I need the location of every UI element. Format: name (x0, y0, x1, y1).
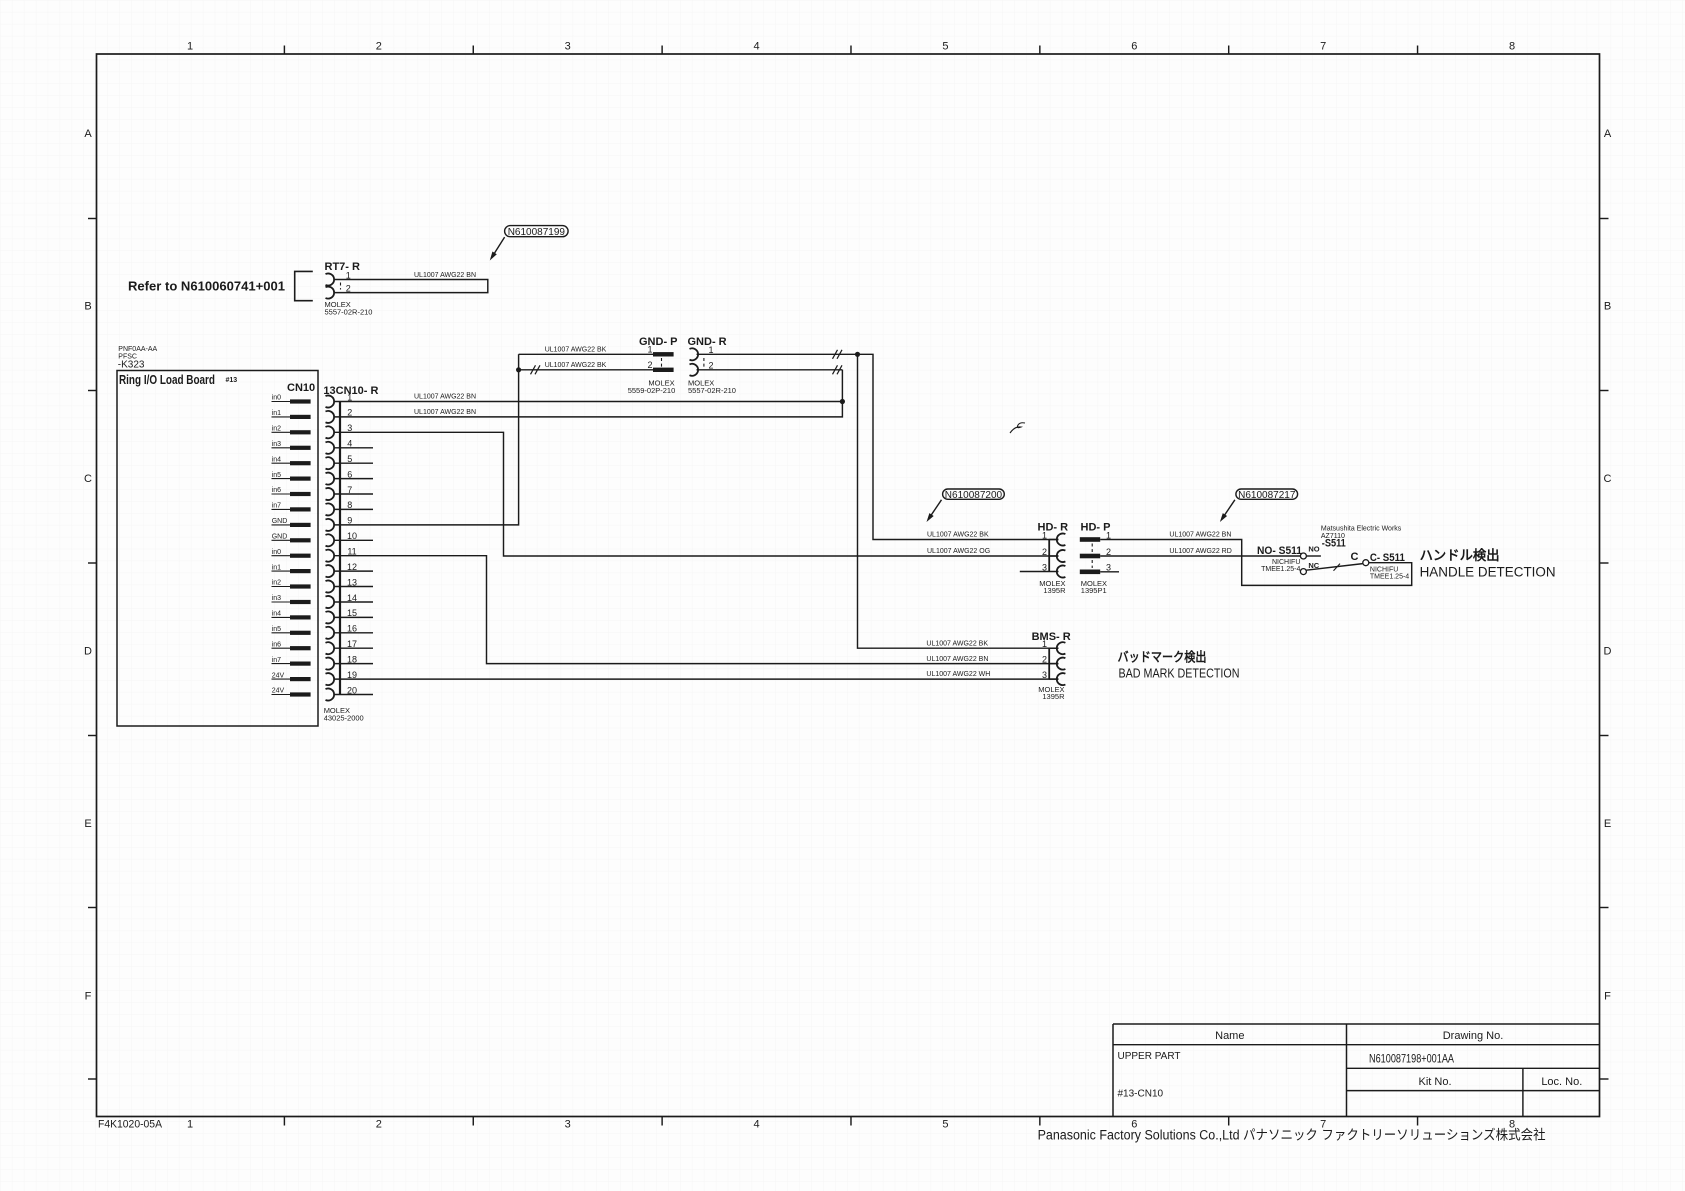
svg-text:-K323: -K323 (118, 360, 145, 371)
svg-text:43025-2000: 43025-2000 (324, 714, 364, 723)
svg-text:Loc. No.: Loc. No. (1541, 1076, 1582, 1088)
svg-text:5557-02R-210: 5557-02R-210 (688, 386, 736, 395)
svg-text:B: B (84, 301, 91, 313)
HD-R pin3 stub (1020, 571, 1059, 573)
svg-text:UL1007 AWG22 BN: UL1007 AWG22 BN (414, 393, 476, 400)
svg-text:1: 1 (187, 41, 193, 53)
svg-text:UPPER PART: UPPER PART (1118, 1051, 1181, 1062)
svg-text:B: B (1604, 301, 1611, 313)
svg-text:in1: in1 (272, 410, 281, 417)
svg-text:NO: NO (1308, 545, 1319, 554)
svg-text:5559-02P-210: 5559-02P-210 (628, 386, 676, 395)
switch S511 terminal NC (1300, 569, 1306, 575)
svg-text:C: C (1351, 551, 1359, 563)
svg-text:GND: GND (272, 534, 288, 541)
svg-text:ハンドル検出: ハンドル検出 (1420, 547, 1500, 563)
CN10 pin 14 (in3) (272, 601, 291, 603)
svg-text:N610087217: N610087217 (1238, 490, 1296, 501)
svg-text:in2: in2 (272, 426, 281, 433)
CN10 pin 2 (in1) (272, 416, 291, 418)
CN10 pin 6 (in5) (272, 478, 291, 480)
callout N610087200 (943, 489, 1005, 499)
svg-text:C: C (1604, 473, 1612, 485)
svg-text:RT7- R: RT7- R (325, 261, 361, 273)
junction dot C (855, 352, 860, 357)
svg-text:24V: 24V (272, 672, 285, 679)
svg-text:3: 3 (565, 41, 571, 53)
CN10 pin 1 (in0) (272, 401, 291, 403)
bracket symbol (295, 271, 313, 300)
svg-text:in6: in6 (272, 487, 281, 494)
svg-text:Refer to N610060741+001: Refer to N610060741+001 (128, 279, 285, 294)
svg-text:UL1007 AWG22 BN: UL1007 AWG22 BN (414, 409, 476, 416)
svg-text:Ring I/O Load Board: Ring I/O Load Board (119, 373, 215, 387)
svg-text:in0: in0 (272, 549, 281, 556)
svg-text:E: E (1604, 818, 1611, 830)
svg-text:UL1007 AWG22 BK: UL1007 AWG22 BK (545, 362, 607, 369)
wire break mark (531, 365, 536, 374)
svg-text:UL1007 AWG22 BK: UL1007 AWG22 BK (927, 532, 989, 539)
svg-text:BMS- R: BMS- R (1032, 631, 1071, 643)
svg-text:#13-CN10: #13-CN10 (1118, 1089, 1164, 1100)
svg-text:in0: in0 (272, 395, 281, 402)
svg-text:D: D (1604, 646, 1612, 658)
svg-text:A: A (84, 128, 92, 140)
wire CN10-19 to BMS-R pin3 UL1007 AWG22 WH (334, 678, 1059, 680)
svg-text:in7: in7 (272, 503, 281, 510)
svg-text:N610087198+001AA: N610087198+001AA (1369, 1052, 1454, 1066)
svg-text:UL1007 AWG22 WH: UL1007 AWG22 WH (926, 671, 990, 678)
svg-text:BAD MARK DETECTION: BAD MARK DETECTION (1119, 666, 1240, 681)
wire CN10-11 to BMS-R pin2 (334, 556, 1059, 664)
svg-text:GND- P: GND- P (639, 336, 678, 348)
svg-text:24V: 24V (272, 688, 285, 695)
callout N610087217 (1236, 489, 1298, 499)
CN10 pin 3 (in2) (272, 431, 291, 433)
wire RT7-R loop UL1007 AWG22 BN (334, 280, 488, 293)
wire HD-P pin2 UL1007 AWG22 RD to switch NO (1100, 555, 1300, 557)
HD-P pin3 stub (1100, 571, 1119, 573)
svg-text:UL1007 AWG22 BK: UL1007 AWG22 BK (926, 640, 988, 647)
svg-text:5: 5 (942, 41, 948, 53)
svg-text:N610087200: N610087200 (945, 490, 1003, 501)
svg-text:UL1007 AWG22 BK: UL1007 AWG22 BK (545, 347, 607, 354)
wire break mark (833, 350, 838, 359)
wire GND-P pin1 UL1007 AWG22 BK (519, 353, 653, 355)
svg-text:1395P1: 1395P1 (1081, 586, 1107, 595)
CN10 pin 10 (GND) (272, 539, 291, 541)
svg-text:3: 3 (1042, 670, 1047, 680)
svg-text:C- S511: C- S511 (1370, 552, 1405, 564)
svg-text:N610087199: N610087199 (508, 227, 566, 238)
wire GND-R pin1 to HD-R pin1 (697, 354, 1059, 539)
svg-text:A: A (1604, 128, 1612, 140)
wire CN10-2 UL1007 AWG22 BN (334, 370, 842, 417)
svg-text:8: 8 (1509, 41, 1515, 53)
svg-text:in7: in7 (272, 657, 281, 664)
svg-text:GND- R: GND- R (688, 336, 727, 348)
svg-text:Panasonic Factory Solutions Co: Panasonic Factory Solutions Co.,Ltd パナソニ… (1038, 1128, 1546, 1143)
svg-text:F: F (1604, 991, 1611, 1003)
svg-text:in4: in4 (272, 456, 281, 463)
svg-text:1: 1 (187, 1119, 193, 1131)
svg-text:1395R: 1395R (1042, 692, 1065, 701)
svg-text:E: E (84, 818, 91, 830)
svg-text:HANDLE DETECTION: HANDLE DETECTION (1420, 565, 1556, 580)
wire CN10-3 to HD-R pin2 (334, 432, 1059, 556)
svg-text:in1: in1 (272, 564, 281, 571)
svg-text:3: 3 (565, 1119, 571, 1131)
svg-text:2: 2 (376, 1119, 382, 1131)
svg-text:in4: in4 (272, 611, 281, 618)
svg-text:PNF0AA-AA: PNF0AA-AA (118, 346, 157, 353)
callout N610087199 (505, 226, 568, 237)
CN10 pin 8 (in7) (272, 508, 291, 510)
svg-text:in6: in6 (272, 641, 281, 648)
CN10 pin 12 (in1) (272, 570, 291, 572)
CN10 pin 5 (in4) (272, 462, 291, 464)
svg-text:F: F (85, 991, 92, 1003)
CN10 pin 11 (in0) (272, 555, 291, 557)
CN10 pin 15 (in4) (272, 616, 291, 618)
junction dot A (840, 399, 845, 404)
svg-text:C: C (84, 473, 92, 485)
svg-text:2: 2 (647, 360, 652, 370)
svg-text:UL1007 AWG22 RD: UL1007 AWG22 RD (1169, 548, 1231, 555)
wire junction C to BMS-R pin1 UL1007 AWG22 BK (858, 354, 1059, 648)
svg-text:in2: in2 (272, 580, 281, 587)
CN10 pin 20 (24V) (272, 694, 291, 696)
junction dot B (516, 367, 521, 372)
svg-text:UL1007 AWG22 BN: UL1007 AWG22 BN (1169, 532, 1231, 539)
svg-text:1: 1 (647, 344, 652, 354)
svg-text:5557-02R-210: 5557-02R-210 (325, 308, 373, 317)
svg-text:UL1007 AWG22 OG: UL1007 AWG22 OG (927, 548, 990, 555)
svg-text:-S511: -S511 (1322, 538, 1346, 550)
wire CN10-9 to GND-P pin1 (334, 354, 519, 525)
svg-text:in3: in3 (272, 595, 281, 602)
svg-text:in3: in3 (272, 441, 281, 448)
svg-text:2: 2 (376, 41, 382, 53)
svg-text:1: 1 (1042, 530, 1047, 540)
wire CN10-1 UL1007 AWG22 BN to junction (334, 401, 842, 403)
svg-text:in5: in5 (272, 472, 281, 479)
svg-text:1395R: 1395R (1043, 586, 1066, 595)
svg-text:GND: GND (272, 518, 288, 525)
CN10 pin 4 (in3) (272, 447, 291, 449)
svg-text:Name: Name (1215, 1030, 1244, 1042)
switch S511 lever (1306, 564, 1363, 571)
svg-text:1: 1 (1042, 639, 1047, 649)
svg-text:NO- S511: NO- S511 (1257, 545, 1302, 557)
svg-text:5: 5 (942, 1119, 948, 1131)
svg-text:4: 4 (754, 41, 760, 53)
CN10 pin 9 (GND) (272, 524, 291, 526)
CN10 pin 7 (in6) (272, 493, 291, 495)
svg-text:CN10: CN10 (287, 382, 315, 394)
svg-text:4: 4 (754, 1119, 760, 1131)
svg-text:Drawing No.: Drawing No. (1443, 1030, 1504, 1042)
stray mark (1010, 423, 1025, 433)
CN10 pin 17 (in6) (272, 647, 291, 649)
svg-text:#13: #13 (226, 377, 238, 384)
svg-text:UL1007 AWG22 BN: UL1007 AWG22 BN (414, 272, 476, 279)
svg-text:7: 7 (1320, 41, 1326, 53)
svg-text:2: 2 (1042, 654, 1047, 664)
svg-text:F4K1020-05A: F4K1020-05A (98, 1119, 163, 1131)
svg-text:D: D (84, 646, 92, 658)
CN10 pin 13 (in2) (272, 586, 291, 588)
svg-text:3: 3 (1106, 562, 1111, 572)
svg-text:Matsushita Electric Works: Matsushita Electric Works (1321, 526, 1402, 533)
CN10 pin 18 (in7) (272, 663, 291, 665)
title block (1113, 1023, 1600, 1025)
CN10 pin 19 (24V) (272, 678, 291, 680)
svg-text:2: 2 (1042, 547, 1047, 557)
wire GND-P pin2 UL1007 AWG22 BK (519, 369, 653, 371)
svg-text:バッドマーク検出: バッドマーク検出 (1118, 650, 1207, 665)
svg-text:3: 3 (1042, 562, 1047, 572)
svg-text:Kit No.: Kit No. (1418, 1076, 1451, 1088)
wire break mark (833, 365, 838, 374)
wire GND-R pin2 to junction A (697, 369, 843, 371)
svg-text:TMEE1.25-4: TMEE1.25-4 (1261, 566, 1300, 573)
svg-text:6: 6 (1131, 41, 1137, 53)
svg-text:UL1007 AWG22 BN: UL1007 AWG22 BN (926, 656, 988, 663)
svg-text:TMEE1.25-4: TMEE1.25-4 (1370, 573, 1409, 580)
svg-text:in5: in5 (272, 626, 281, 633)
wire HD-P pin1 UL1007 AWG22 BN to switch C (1100, 540, 1412, 586)
CN10 pin 16 (in5) (272, 632, 291, 634)
